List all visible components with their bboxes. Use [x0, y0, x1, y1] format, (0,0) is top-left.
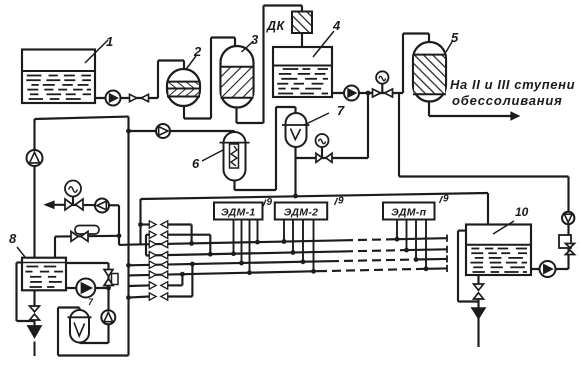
svg-text:6: 6: [192, 156, 200, 171]
svg-text:5: 5: [451, 30, 459, 45]
svg-text:ЭДМ-п: ЭДМ-п: [391, 207, 426, 219]
svg-text:3: 3: [251, 32, 259, 47]
svg-text:1: 1: [106, 34, 113, 49]
svg-text:2: 2: [193, 44, 202, 59]
svg-text:9: 9: [338, 196, 344, 207]
svg-text:10: 10: [515, 205, 529, 219]
svg-text:ЭДМ-2: ЭДМ-2: [284, 207, 319, 219]
svg-text:9: 9: [267, 197, 273, 208]
svg-text:ЭДМ-1: ЭДМ-1: [221, 207, 256, 219]
svg-text:ДК: ДК: [266, 19, 286, 33]
svg-text:обессоливания: обессоливания: [452, 93, 563, 108]
svg-text:9: 9: [443, 194, 449, 205]
svg-text:На II и III ступени: На II и III ступени: [450, 77, 575, 92]
svg-text:4: 4: [332, 18, 341, 33]
svg-text:7: 7: [337, 103, 345, 118]
svg-text:8: 8: [9, 231, 17, 246]
